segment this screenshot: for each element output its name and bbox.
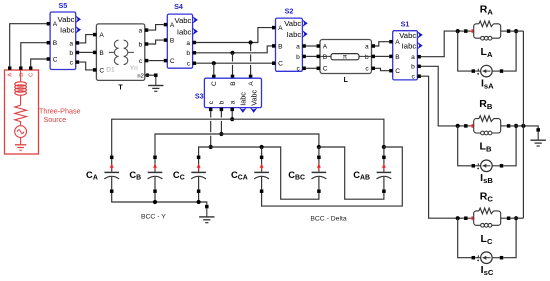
svg-text:a: a bbox=[411, 54, 415, 61]
measurement block S1 bbox=[389, 19, 423, 80]
wire net b S4 to S2 bbox=[196, 46, 272, 53]
current source IsA bbox=[472, 65, 504, 77]
wire node B to CAB bottom bbox=[319, 147, 384, 199]
wire L a to S1 A bbox=[375, 42, 389, 46]
wire neutral rail right bbox=[522, 31, 524, 218]
svg-text:T: T bbox=[118, 85, 123, 92]
junction net c bbox=[212, 61, 216, 65]
svg-text:A: A bbox=[248, 81, 255, 86]
junction bus A bbox=[230, 117, 234, 121]
svg-text:D1: D1 bbox=[106, 66, 115, 73]
wire to IsA bbox=[458, 31, 472, 71]
measurement block S5 bbox=[47, 1, 81, 70]
junction bus C bbox=[209, 145, 213, 149]
svg-text:A: A bbox=[395, 39, 400, 46]
svg-text:b: b bbox=[186, 50, 190, 57]
current source IsB bbox=[472, 160, 504, 172]
capacitor CB bbox=[129, 156, 162, 193]
junction Y neutral CB bbox=[153, 200, 157, 204]
svg-text:S4: S4 bbox=[174, 2, 183, 11]
junction bus C at CCA bbox=[260, 145, 264, 149]
ground right rail bbox=[531, 132, 546, 146]
wire L c to S1 C bbox=[375, 68, 389, 70]
svg-text:S2: S2 bbox=[285, 7, 294, 16]
label RA bbox=[480, 4, 494, 17]
label RB bbox=[479, 98, 493, 111]
source internal ground bbox=[15, 145, 26, 150]
junction main rail B bbox=[521, 124, 525, 128]
wire net a tap to S3 A bbox=[249, 43, 253, 79]
svg-text:b: b bbox=[69, 50, 73, 57]
svg-text:C: C bbox=[323, 66, 328, 73]
svg-text:L: L bbox=[344, 77, 349, 84]
svg-text:Vabc: Vabc bbox=[399, 31, 416, 40]
label L bbox=[344, 77, 349, 84]
label IsA bbox=[481, 78, 494, 91]
wire T c to S4 C bbox=[148, 60, 164, 62]
junction load B left bbox=[456, 124, 460, 128]
transformer secondary winding bbox=[124, 40, 134, 64]
wire S5 a to T A bbox=[79, 35, 93, 43]
bus A wire bbox=[112, 119, 384, 155]
svg-text:B: B bbox=[230, 81, 237, 86]
wire T b to S4 B bbox=[148, 40, 164, 44]
label RC bbox=[480, 190, 494, 203]
svg-text:Iabc: Iabc bbox=[177, 27, 192, 36]
wire RB to ground rail bbox=[510, 126, 540, 132]
svg-text:C: C bbox=[99, 67, 104, 74]
junction net a bbox=[249, 40, 253, 44]
wire source C to S5 C bbox=[31, 59, 47, 66]
junction load A right bbox=[514, 29, 518, 33]
junction Y neutral CC bbox=[197, 200, 201, 204]
wire IsC to right rail bbox=[503, 218, 516, 258]
svg-text:b: b bbox=[219, 100, 226, 104]
junction bus B at CBC bbox=[317, 145, 321, 149]
RL load RC LC bbox=[464, 208, 510, 227]
svg-text:a: a bbox=[139, 28, 143, 35]
junction load B right bbox=[514, 124, 518, 128]
transformer T block bbox=[93, 24, 149, 81]
wire bus A to CAB top bbox=[383, 147, 385, 156]
RL load RA LA bbox=[464, 21, 510, 40]
svg-text:C: C bbox=[211, 81, 218, 86]
wire S1 a to load A bbox=[421, 31, 464, 57]
wire S1 c to load C bbox=[421, 76, 464, 218]
svg-text:Vabc: Vabc bbox=[249, 90, 258, 106]
svg-text:B: B bbox=[19, 73, 25, 77]
wire T a to S4 A bbox=[148, 25, 164, 31]
svg-text:B: B bbox=[323, 54, 328, 61]
svg-text:C: C bbox=[53, 56, 58, 63]
svg-text:A: A bbox=[323, 43, 328, 50]
bus C wire bbox=[199, 147, 319, 199]
capacitor CC bbox=[173, 156, 206, 193]
svg-text:B: B bbox=[170, 38, 175, 45]
wire net a S4 to S2 bbox=[196, 28, 272, 43]
svg-text:Vabc: Vabc bbox=[284, 19, 301, 28]
svg-text:b: b bbox=[365, 54, 369, 61]
svg-text:A: A bbox=[99, 32, 104, 39]
wire S2 b to L B bbox=[306, 55, 316, 57]
svg-text:B: B bbox=[99, 50, 104, 57]
label Yn bbox=[130, 65, 138, 72]
svg-text:Source: Source bbox=[44, 115, 67, 124]
label IsB bbox=[480, 172, 493, 185]
wire Y neutral bus bbox=[112, 193, 209, 208]
wire S2 c to L C bbox=[306, 67, 316, 69]
svg-text:a: a bbox=[296, 43, 300, 50]
junction bus B bbox=[219, 132, 223, 136]
svg-text:C: C bbox=[29, 73, 35, 77]
label LA bbox=[481, 46, 493, 59]
label BCC - Delta bbox=[310, 215, 346, 222]
junction load C left bbox=[456, 216, 460, 220]
svg-text:S3: S3 bbox=[195, 91, 204, 100]
label BCC - Y bbox=[141, 213, 166, 220]
junction load C right bbox=[514, 216, 518, 220]
current source IsC bbox=[472, 252, 504, 264]
svg-text:B: B bbox=[53, 40, 58, 47]
wire bus C to CCA top bbox=[261, 147, 263, 156]
svg-text:Iabc: Iabc bbox=[60, 26, 75, 35]
wire S3 b to bus B bbox=[220, 111, 222, 134]
svg-text:Vabc: Vabc bbox=[58, 15, 75, 24]
svg-text:B: B bbox=[395, 54, 400, 61]
svg-text:a: a bbox=[69, 40, 73, 47]
wire node A to CCA bottom bbox=[262, 147, 403, 206]
svg-text:C: C bbox=[278, 61, 283, 68]
junction load A left bbox=[456, 29, 460, 33]
capacitor CBC bbox=[288, 156, 326, 193]
svg-text:a: a bbox=[365, 43, 369, 50]
svg-text:C: C bbox=[170, 58, 175, 65]
label D1 bbox=[106, 66, 115, 73]
wire S3 c to bus C bbox=[210, 111, 212, 147]
pi-section line block L bbox=[317, 40, 376, 74]
source series inductor bbox=[15, 70, 27, 105]
wire S5 c to T C bbox=[79, 62, 93, 70]
svg-text:S1: S1 bbox=[401, 19, 410, 28]
wire S5 b to T B bbox=[79, 51, 93, 53]
wire S2 a to L A bbox=[306, 45, 316, 47]
wire S1 b to load B bbox=[421, 66, 464, 126]
measurement block S3 (rotated) bbox=[195, 78, 262, 113]
svg-text:b: b bbox=[139, 41, 143, 48]
wire RC to right rail bbox=[510, 217, 523, 219]
wire IsA to right rail bbox=[503, 31, 516, 71]
svg-text:Iabc: Iabc bbox=[287, 30, 302, 39]
svg-text:Iabc: Iabc bbox=[239, 92, 248, 106]
svg-text:A: A bbox=[278, 25, 283, 32]
wire source A to S5 A bbox=[10, 24, 47, 67]
label IsC bbox=[481, 264, 494, 277]
label T bbox=[118, 85, 123, 92]
wire bus B to CBC top bbox=[318, 147, 320, 156]
measurement block S2 bbox=[272, 7, 308, 73]
wire net c S4 to S2 bbox=[196, 62, 272, 64]
bus B wire bbox=[155, 134, 319, 156]
svg-text:b: b bbox=[296, 54, 300, 61]
label LB bbox=[480, 141, 492, 154]
svg-text:n2: n2 bbox=[137, 74, 143, 80]
wire net c tap to S3 C bbox=[212, 63, 216, 78]
svg-text:A: A bbox=[8, 73, 14, 77]
label LC bbox=[481, 233, 493, 246]
wire RA to right rail bbox=[510, 30, 523, 32]
svg-text:a: a bbox=[186, 40, 190, 47]
label Three-Phase Source bbox=[39, 106, 81, 124]
svg-text:a: a bbox=[230, 100, 237, 104]
junction net b bbox=[230, 51, 234, 55]
svg-text:Yn: Yn bbox=[130, 65, 138, 72]
wire T n2 to ground bbox=[145, 73, 158, 77]
ground Y bank bbox=[199, 208, 214, 222]
wire source B to S5 B bbox=[21, 43, 47, 67]
wire net b tap to S3 B bbox=[231, 53, 235, 78]
capacitor CA bbox=[86, 156, 119, 193]
svg-text:S5: S5 bbox=[59, 1, 68, 10]
wire to IsC bbox=[458, 218, 472, 258]
source series resistor bbox=[15, 105, 27, 126]
svg-text:b: b bbox=[411, 64, 415, 71]
measurement block S4 bbox=[164, 2, 198, 68]
transformer primary winding bbox=[109, 40, 119, 64]
wire to IsB bbox=[458, 126, 472, 166]
svg-text:BCC - Y: BCC - Y bbox=[141, 213, 166, 220]
svg-text:BCC - Delta: BCC - Delta bbox=[310, 215, 346, 222]
svg-text:π: π bbox=[343, 54, 348, 61]
AC voltage source bbox=[15, 126, 27, 144]
three-phase source block bbox=[5, 66, 39, 154]
svg-text:C: C bbox=[395, 68, 400, 75]
wire S3 a to bus A bbox=[231, 111, 233, 119]
capacitor CAB bbox=[353, 156, 391, 193]
junction bus A at CAB bbox=[382, 145, 386, 149]
svg-text:B: B bbox=[278, 43, 283, 50]
capacitor CCA bbox=[231, 156, 269, 193]
svg-text:Vabc: Vabc bbox=[174, 16, 191, 25]
RL load RB LB bbox=[464, 116, 510, 135]
svg-text:Iabc: Iabc bbox=[402, 42, 417, 51]
ground near transformer bbox=[148, 77, 163, 91]
wire IsB to right rail bbox=[503, 126, 516, 166]
wire L b to S1 B bbox=[375, 55, 389, 57]
